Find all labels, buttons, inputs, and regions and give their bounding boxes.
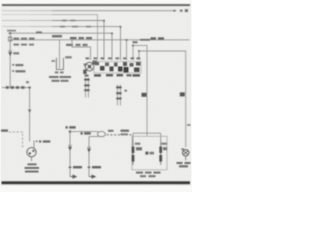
bottom border bar [2,181,191,184]
label left of A/C box [121,130,130,136]
label text on L6 left [52,35,92,39]
node mark center of box [145,152,154,155]
label ticks on L3 [62,20,76,22]
label at left edge of dashed branch [1,129,8,131]
label: washer pump [25,163,40,172]
fuse F on washer drop [8,37,11,41]
wire pair: switch output left [84,78,89,98]
wire: drop to cb x=59.5 [59,40,61,69]
resistor element right in box [159,140,167,165]
wire: feed line L3 [2,21,104,61]
label text on L6 right [140,37,164,40]
top border bar [2,4,190,6]
wire: feed line L5 [8,33,112,60]
switch pin labels above [86,57,141,59]
wire: ground drop x=70 [68,132,72,177]
wire: left ground run with connector loop [69,131,105,137]
label ticks on L5 [36,31,42,33]
wire: horizontal run to pump [2,87,30,89]
wire: A/C box internal distribution [133,133,161,140]
connector arrow on pump drop [28,110,31,114]
wiper/washer switch assembly [83,61,141,75]
wire: right routing to blower x=133 [133,45,147,135]
wire: feed line L4 [2,27,121,60]
connector tick at clutch diode [181,148,184,150]
label: clutch diode [177,162,191,167]
node corner nibs on feed lines [103,20,128,41]
scan noise overlay [1,3,191,186]
node junction at (29.6,87.6) [28,86,30,88]
label text row under L6 [66,44,88,46]
pump pigtail stub + label [34,140,50,148]
wire: dashed continuation to A/C box [107,134,132,136]
label WT on blower wire [142,93,147,97]
wire: washer feed drop x=10 [9,33,11,87]
A/C control box [132,136,167,170]
label near switch right stub [132,41,140,52]
node S201 junction on L5 [9,32,11,34]
wire: jog feed into switch x=72 [72,40,91,60]
label: A/C box caption [136,172,161,178]
connector arrow on washer drop [8,51,19,56]
wire: right routing to clutch x=139 [139,51,186,147]
label above horizontal run [6,81,29,89]
diode: compressor clutch diode [183,150,189,161]
label above L5 start [7,30,16,32]
splice tick + label on washer drop [12,64,25,72]
switch terminal labels below [85,74,141,77]
wire: pump drop x=29.6 [29,88,31,142]
wire: ground drop x=89 [87,137,91,177]
ground G102 tick and label [88,166,101,178]
label 1 BLK right ground wire [81,132,91,134]
label 1 BLK left ground wire [66,126,76,128]
label: circuit breaker [49,76,71,82]
label text beside fuse [14,38,35,46]
motor: WSW washer pump [27,148,36,161]
wire pair: switch output right [116,85,127,106]
circuit breaker U-box [52,56,72,73]
wire: feed line L2 [2,15,98,60]
label ticks on L4 [60,26,91,28]
paper background [0,0,192,192]
wire: feed line L6 [10,40,190,60]
wire: feed line L1 (hot) [2,9,188,12]
scan fade top-left [0,8,52,31]
label at connector loop [108,130,114,132]
wire: dashed branch to pump from left [9,132,23,148]
resistor element left in box [132,140,142,165]
tick on L6 start [30,38,35,40]
connector tick C2 on clutch wire [187,124,191,126]
ground G101 tick and label [69,166,82,178]
label WT on clutch wire [180,92,185,96]
